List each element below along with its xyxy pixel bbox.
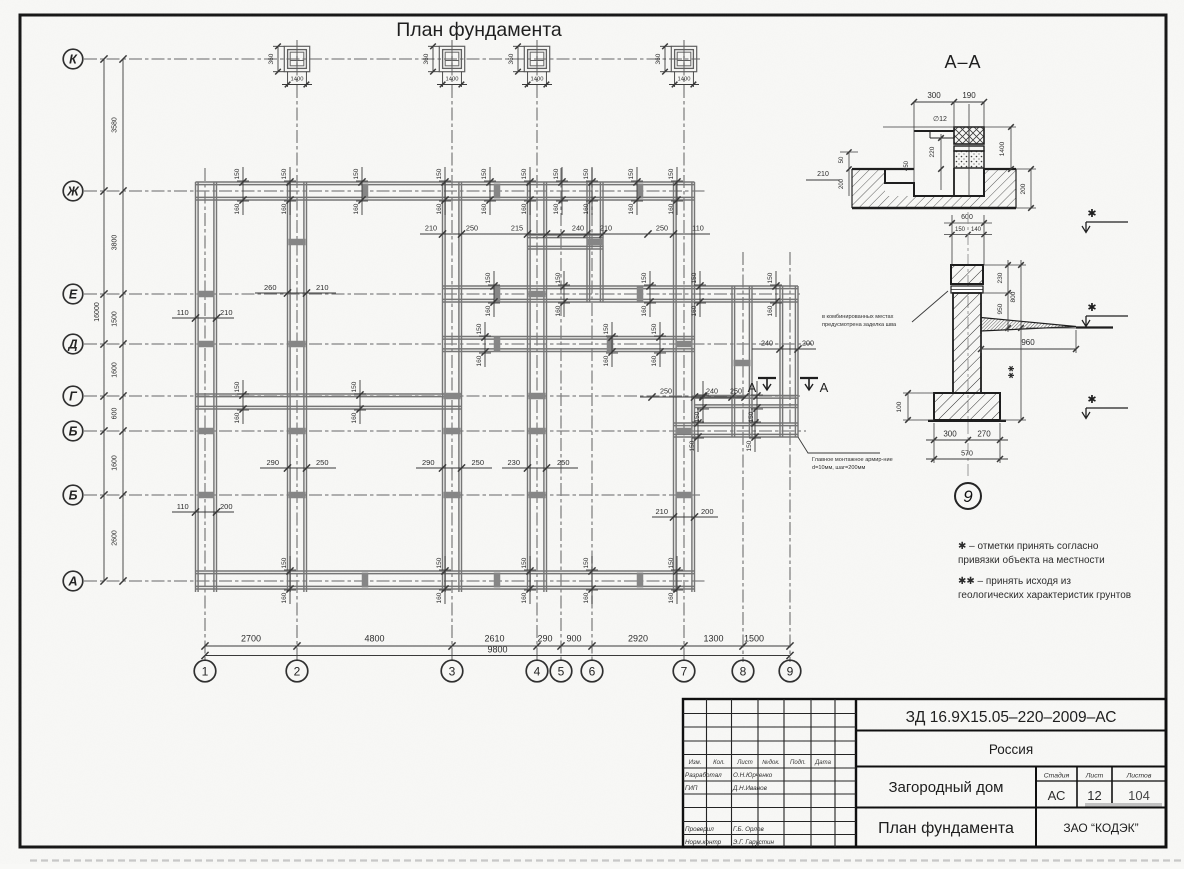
upper section: ground hatch	[852, 169, 1016, 208]
annex bottom wall axis В	[674, 423, 799, 437]
axis circle 6	[581, 660, 603, 682]
section cut mark A left	[748, 378, 776, 395]
wall below axis Г	[196, 394, 462, 409]
section cut mark A right	[800, 378, 829, 395]
axis circle Д	[63, 334, 83, 354]
axis circle 3	[441, 660, 463, 682]
wall thickness dims on wall Д	[476, 322, 666, 367]
axis circle 7	[673, 660, 695, 682]
lower section: footing	[928, 393, 1006, 421]
axis circle А	[63, 571, 83, 591]
axis circle К	[63, 49, 83, 69]
upper section: right dim 1400	[999, 124, 1014, 172]
vertical axis grid lines	[205, 40, 790, 662]
column footing at axis 3	[423, 44, 467, 88]
notes text	[958, 541, 1131, 601]
upper section: right dim 200	[1016, 166, 1036, 211]
upper section: top dims 300 190	[911, 91, 987, 182]
lower section: cap block	[951, 265, 983, 284]
axis circle Б​	[63, 421, 83, 441]
title block left header texts	[689, 759, 832, 766]
wall axis Е	[443, 286, 799, 302]
dim 260/210 on wall 2 at Е	[255, 283, 336, 297]
top exterior wall axis Ж	[196, 182, 695, 200]
title block left grid	[683, 699, 856, 847]
horizontal axis grid lines	[84, 59, 812, 581]
partition wall above axis Е	[528, 235, 604, 249]
left chain dimension line	[112, 55, 127, 584]
upper section: wall column	[954, 127, 984, 196]
annex exterior wall axis 9	[780, 286, 798, 437]
axis circle Г	[63, 386, 83, 406]
stray dim 210 top right	[806, 171, 840, 180]
title block right cells	[856, 731, 1166, 848]
upper section: dim 220	[904, 134, 944, 190]
wall thickness dims on wall Г	[234, 380, 366, 424]
cap dims 600 and 150/140	[944, 214, 992, 265]
wall junction blocks	[198, 184, 751, 588]
wall thickness dims on bottom wall	[281, 556, 683, 604]
bottom exterior wall axis А	[196, 571, 695, 589]
wall thickness dim annex partition	[694, 381, 763, 423]
dim row annex at Г	[640, 387, 749, 401]
dim 110/210 on wall 1 upper	[172, 308, 234, 322]
dim 110/200 on wall 1 lower	[172, 502, 234, 516]
axis circle 9	[779, 660, 801, 682]
wall axis Д	[443, 337, 695, 352]
lower section: right dim stack	[983, 260, 1076, 423]
bottom chain dimension line	[201, 634, 793, 650]
title block frame	[683, 699, 1166, 847]
upper section: floor slab lines	[914, 131, 954, 138]
elevation mark middle	[1082, 302, 1128, 327]
wall thickness dims on annex bottom	[689, 408, 761, 452]
wall thickness dims on top wall	[234, 167, 683, 215]
lower section: stem	[953, 293, 981, 393]
annex wall axis 8	[732, 286, 752, 437]
elevation mark bottom	[1082, 394, 1128, 419]
wall axis 3	[443, 182, 462, 592]
column footing at axis 2	[268, 44, 312, 88]
detail circle 9	[955, 483, 981, 509]
lower section: leader note	[822, 291, 948, 328]
axis circle 8	[732, 660, 754, 682]
upper section: dim line at column top	[883, 104, 1016, 196]
axis circle 2	[286, 660, 308, 682]
left overall dimension line 16000	[94, 55, 108, 584]
wall axis 4	[528, 182, 547, 592]
axis circle 1	[194, 660, 216, 682]
lower section: dim 960	[978, 330, 1079, 353]
column footing at axis 7	[655, 44, 699, 88]
annex leader note	[798, 437, 893, 471]
wall thickness dims on wall Е	[485, 271, 782, 317]
axis circle 5	[550, 660, 572, 682]
dim 210/200 on wall 7	[652, 507, 718, 521]
title План фундамента	[396, 19, 562, 41]
section dim 240/200 right of annex	[752, 339, 816, 353]
ЗАО КОДЭК	[1063, 821, 1138, 835]
lower section: left dim 100	[896, 390, 934, 423]
exterior wall axis 7	[674, 182, 695, 592]
Загородный дом	[888, 779, 1003, 796]
axis circle 4	[526, 660, 548, 682]
Россия	[989, 742, 1033, 757]
upper section: left dims	[839, 149, 858, 196]
annex partition wall	[695, 396, 799, 408]
doc number	[906, 709, 1117, 726]
lower section: centerline	[967, 212, 969, 478]
dim row above partition wall	[420, 224, 710, 238]
axis circle Е	[63, 284, 83, 304]
exterior wall axis 1	[196, 182, 217, 592]
column footing at axis 4	[508, 44, 552, 88]
lower section: bottom dims 300 270 570	[926, 423, 1008, 463]
section title А-А	[944, 52, 981, 72]
elevation mark top	[1082, 208, 1128, 233]
wall axis 6 upper	[587, 182, 603, 302]
axis circle Ж	[63, 181, 83, 201]
План фундамента (stamp)	[878, 820, 1014, 837]
lower section: blind area wedge	[981, 318, 1113, 332]
upper section: trench outline	[852, 169, 1016, 208]
bottom overall dimension 9800	[201, 645, 793, 660]
axis circle Б	[63, 485, 83, 505]
dims 290/250 row	[260, 458, 578, 472]
stadia list cells	[1044, 772, 1152, 804]
title block signatures	[685, 771, 774, 846]
bottom scan artifact line	[30, 859, 1184, 861]
lower section: separation band	[951, 286, 983, 293]
wall axis 2	[288, 182, 307, 592]
